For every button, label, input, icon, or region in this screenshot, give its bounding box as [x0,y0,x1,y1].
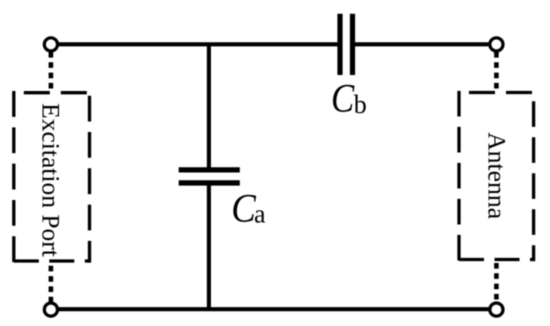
svg-text:a: a [254,200,266,229]
svg-text:Antenna: Antenna [482,132,511,220]
svg-text:C: C [231,187,256,231]
svg-text:C: C [331,78,355,122]
svg-text:b: b [354,90,367,119]
svg-text:Excitation Port: Excitation Port [37,103,66,257]
